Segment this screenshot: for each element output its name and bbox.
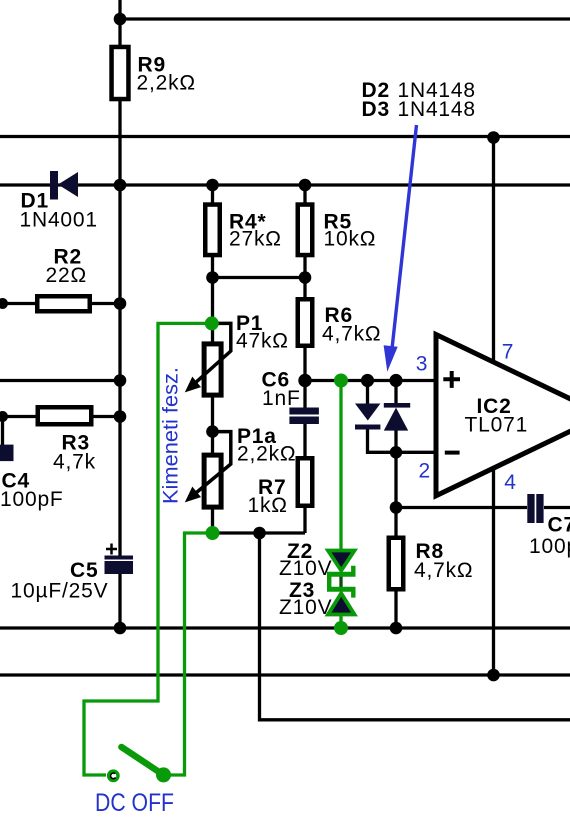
wire C4 lead: [1, 417, 4, 446]
junction P1 wiper green: [205, 316, 219, 330]
wire R4 R5 column verticals: [213, 185, 306, 533]
potentiometer P1a body: [204, 455, 221, 507]
svg-text:27kΩ: 27kΩ: [229, 228, 282, 251]
junction feedback tap: [253, 527, 266, 540]
wire rail 2: [0, 183, 570, 186]
green zener column wire: [339, 381, 342, 629]
junction D1 node: [114, 179, 127, 192]
junction pin2 node: [390, 446, 403, 459]
op-amp minus input sign: [445, 451, 460, 455]
wire R4-R5 bottom link: [213, 276, 306, 279]
switch open contact ring: [107, 769, 120, 782]
junction zener ground green: [334, 621, 348, 635]
blue annotation arrow to D2 D3: [384, 125, 417, 372]
svg-text:4,7k: 4,7k: [53, 451, 96, 474]
resistor R4: [205, 205, 220, 256]
wire R8 leads: [394, 508, 397, 629]
junction R5 bottom: [299, 271, 312, 284]
wire output row: [396, 506, 570, 509]
capacitor C6: [289, 408, 319, 425]
junction C6 node: [298, 374, 311, 387]
svg-text:7: 7: [502, 340, 514, 363]
junction ground rail C5: [114, 622, 127, 635]
diode D1: [50, 171, 78, 200]
wire ground rail 2: [0, 673, 570, 676]
zener Z2: [327, 551, 356, 583]
wire P1a bottom row: [213, 531, 306, 534]
svg-text:2,2kΩ: 2,2kΩ: [237, 443, 296, 466]
svg-text:C7: C7: [548, 514, 570, 537]
resistor R9: [112, 47, 129, 99]
svg-text:Kimeneti fesz.: Kimeneti fesz.: [160, 367, 183, 504]
svg-text:3: 3: [416, 353, 428, 376]
capacitor C7: [527, 494, 543, 523]
wire ground rail 1: [0, 626, 570, 629]
wire R2 row: [0, 302, 120, 305]
capacitor C5 electrolytic: [105, 556, 134, 575]
junction R5 top: [299, 179, 312, 192]
wire bottom feedback: [260, 533, 570, 720]
wire pin2 row: [368, 430, 437, 453]
svg-text:1N4001: 1N4001: [20, 209, 98, 232]
wire node row left: [0, 379, 120, 382]
svg-text:1nF: 1nF: [262, 387, 301, 410]
junction R4 bottom: [206, 271, 219, 284]
svg-text:D3: D3: [362, 98, 390, 121]
svg-text:4,7kΩ: 4,7kΩ: [322, 323, 381, 346]
junction R3 left stub: [0, 411, 8, 422]
junction top rail R9: [114, 13, 127, 26]
resistor R5: [298, 205, 313, 256]
junction R2 right: [114, 297, 127, 310]
capacitor C5 plus sign: [106, 544, 117, 555]
junction zener tap green: [334, 374, 348, 388]
junction P1a top: [206, 425, 219, 438]
svg-text:DC OFF: DC OFF: [95, 789, 174, 817]
junction R2 left stub: [0, 298, 8, 309]
op-amp U IC2 triangle: [436, 335, 570, 496]
green output voltage wire left: [84, 323, 212, 775]
potentiometer P1 body: [204, 344, 221, 395]
capacitor C4: [0, 445, 14, 462]
wire rail 1: [0, 135, 570, 138]
wire R3 row: [0, 415, 120, 418]
green wire right switch to P1a: [164, 533, 213, 775]
svg-text:22Ω: 22Ω: [46, 264, 87, 287]
svg-text:4: 4: [504, 471, 516, 494]
junction node row left: [114, 374, 127, 387]
op-amp plus input sign: [443, 371, 460, 388]
junction switch pivot green: [156, 767, 171, 782]
junction R3 right: [114, 410, 127, 423]
junction R8 top output: [390, 501, 403, 514]
resistor R7: [298, 458, 313, 506]
zener Z3: [327, 581, 356, 615]
junction D3 top pin3: [389, 374, 402, 387]
zener middle connector: [339, 576, 342, 588]
svg-text:TL071: TL071: [465, 414, 529, 437]
diode D3: [384, 403, 410, 431]
svg-text:2: 2: [419, 460, 431, 483]
junction P1a bottom green: [206, 526, 220, 540]
svg-text:Z10V: Z10V: [279, 596, 332, 619]
svg-text:4,7kΩ: 4,7kΩ: [414, 559, 473, 582]
resistor R6: [298, 299, 313, 346]
resistor R3: [38, 407, 92, 424]
junction ground rail R8: [390, 622, 403, 635]
diode D2: [355, 404, 380, 430]
junction rail1 supply: [487, 131, 500, 144]
junction D2 top: [361, 374, 374, 387]
wire D2 D3 leads: [368, 381, 397, 508]
svg-text:Z10V: Z10V: [279, 557, 332, 580]
potentiometer P1 wiper arrow: [185, 323, 231, 392]
junction rail2 supply bottom: [487, 669, 500, 682]
svg-text:1N4148: 1N4148: [398, 98, 476, 121]
wire top rail: [120, 17, 570, 20]
svg-text:1kΩ: 1kΩ: [248, 494, 288, 517]
svg-text:100p: 100p: [529, 535, 570, 558]
junction R4 top: [206, 179, 219, 192]
wire pin3 row: [305, 379, 437, 382]
wire supply vertical pin7-pin4: [492, 138, 495, 676]
switch DC OFF lever: [121, 747, 163, 775]
svg-text:100pF: 100pF: [0, 488, 64, 511]
potentiometer P1a wiper arrow: [185, 432, 231, 503]
svg-text:2,2kΩ: 2,2kΩ: [137, 72, 196, 95]
resistor R2: [37, 296, 90, 311]
svg-text:10µF/25V: 10µF/25V: [11, 580, 109, 603]
wire main vertical bus: [118, 0, 121, 628]
svg-text:10kΩ: 10kΩ: [324, 228, 377, 251]
svg-text:47kΩ: 47kΩ: [236, 330, 289, 353]
resistor R8: [389, 538, 404, 590]
